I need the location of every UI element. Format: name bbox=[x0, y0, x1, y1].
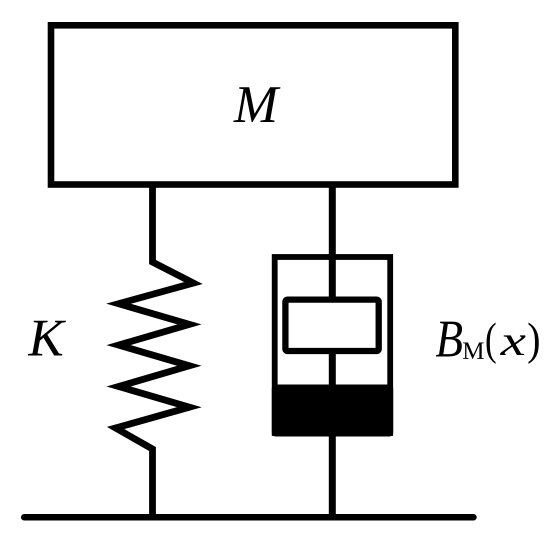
mass M block bbox=[51, 25, 455, 184]
svg-text:M: M bbox=[233, 76, 281, 134]
damper fluid (black fill bottom) bbox=[272, 385, 393, 437]
spring K (top link, zigzag coil, bottom link) bbox=[116, 181, 194, 517]
wire: damper rod vertical through center bbox=[329, 181, 336, 517]
label BM(x): open paren (path) bbox=[487, 323, 496, 364]
svg-text:B: B bbox=[436, 311, 464, 369]
label BM(x): subscript M (drawn as path to avoid subpixel AA) bbox=[463, 343, 484, 359]
label BM(x): close paren (path) bbox=[528, 323, 538, 364]
ground line bbox=[24, 514, 473, 521]
damper BM(x) outer cylinder bbox=[275, 257, 391, 433]
svg-text:K: K bbox=[27, 310, 66, 368]
label BM(x): variable x (path) bbox=[500, 335, 526, 355]
damper piston (inner rectangle) bbox=[285, 300, 378, 351]
